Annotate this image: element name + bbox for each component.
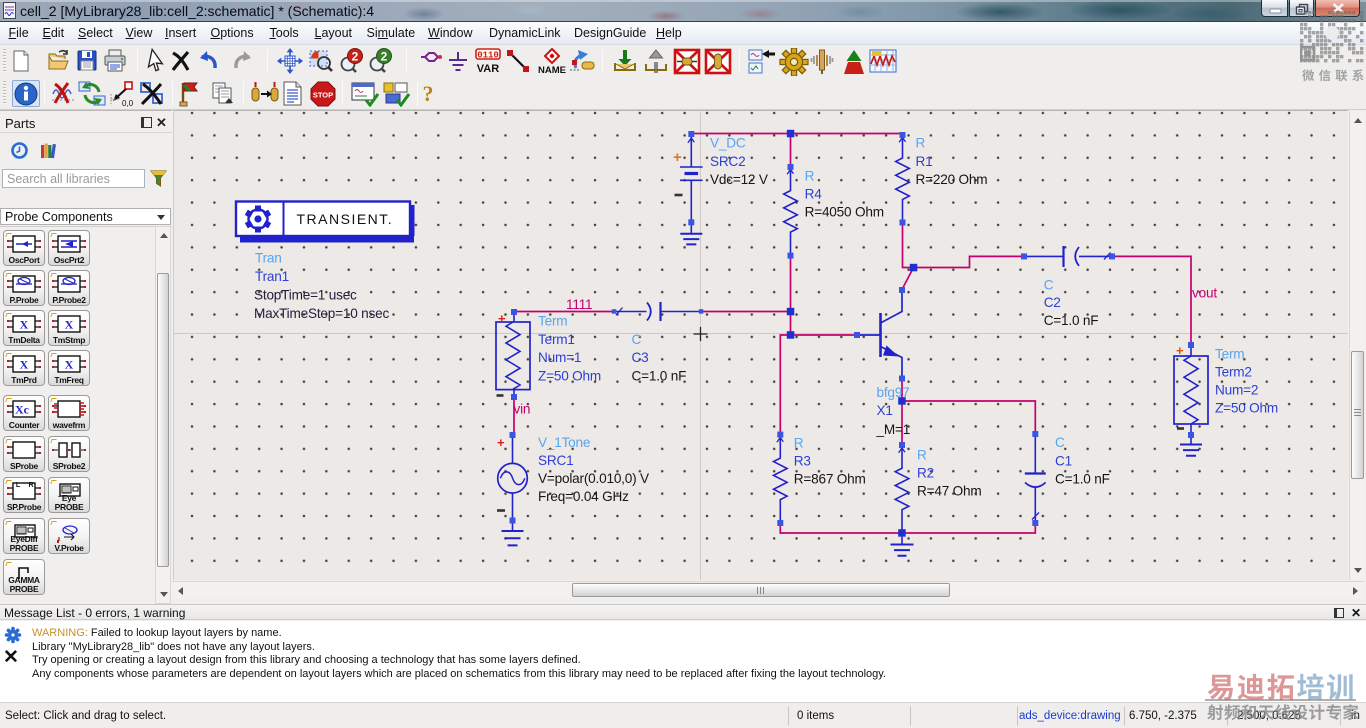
- svg-text:bfg97: bfg97: [877, 385, 910, 400]
- svg-text:X1: X1: [877, 403, 893, 418]
- svg-text:Num=1: Num=1: [538, 350, 581, 365]
- svg-text:R=220 Ohm: R=220 Ohm: [916, 172, 988, 187]
- svg-text:MaxTimeStep=10 nsec: MaxTimeStep=10 nsec: [254, 306, 390, 321]
- svg-text:C=1.0 nF: C=1.0 nF: [632, 368, 687, 383]
- svg-text:+: +: [497, 435, 505, 450]
- svg-text:C1: C1: [1055, 454, 1072, 469]
- svg-text:SRC2: SRC2: [710, 154, 745, 169]
- svg-text:X: X: [20, 318, 29, 332]
- svg-text:Tran: Tran: [255, 251, 282, 266]
- svg-text:VAR: VAR: [477, 63, 499, 75]
- svg-text:R3: R3: [794, 454, 811, 469]
- svg-text:C: C: [632, 332, 642, 347]
- svg-text:C2: C2: [1044, 295, 1061, 310]
- svg-text:X: X: [20, 358, 29, 372]
- svg-text:C3: C3: [632, 350, 649, 365]
- svg-text:C: C: [1055, 435, 1065, 450]
- svg-text:Term: Term: [1215, 347, 1244, 362]
- svg-text:Tran1: Tran1: [255, 269, 289, 284]
- svg-text:+: +: [1176, 343, 1184, 358]
- svg-text:R=867 Ohm: R=867 Ohm: [794, 472, 866, 487]
- svg-text:R: R: [794, 436, 804, 451]
- svg-text:+: +: [673, 149, 682, 166]
- svg-text:?: ?: [423, 81, 434, 106]
- svg-text:0,0: 0,0: [122, 99, 134, 107]
- svg-text:Freq=0.04 GHz: Freq=0.04 GHz: [538, 489, 629, 504]
- svg-text:TRANSIENT.: TRANSIENT.: [297, 211, 394, 227]
- svg-text:R=4050 Ohm: R=4050 Ohm: [805, 205, 884, 220]
- svg-text:StopTime=1 usec: StopTime=1 usec: [254, 288, 357, 303]
- svg-text:2: 2: [352, 50, 359, 64]
- svg-text:V_1Tone: V_1Tone: [538, 435, 590, 450]
- svg-text:SRC1: SRC1: [538, 453, 573, 468]
- svg-text:Num=2: Num=2: [1215, 383, 1258, 398]
- svg-text:X: X: [65, 358, 74, 372]
- svg-text:V_DC: V_DC: [710, 136, 746, 151]
- svg-text:+: +: [498, 311, 506, 326]
- svg-text:C: C: [1044, 277, 1054, 292]
- svg-text:R4: R4: [805, 187, 823, 202]
- svg-text:L: L: [16, 482, 21, 489]
- svg-text:vout: vout: [1192, 286, 1217, 301]
- svg-text:_M=1: _M=1: [876, 422, 911, 437]
- svg-text:1111: 1111: [566, 297, 592, 312]
- svg-text:STOP: STOP: [313, 91, 333, 100]
- svg-text:R=47 Ohm: R=47 Ohm: [917, 484, 982, 499]
- svg-text:R1: R1: [916, 154, 933, 169]
- svg-text:X: X: [65, 318, 74, 332]
- svg-text:R: R: [916, 136, 926, 151]
- svg-text:V=polar(0.010,0) V: V=polar(0.010,0) V: [538, 471, 649, 486]
- svg-text:Term: Term: [538, 314, 567, 329]
- svg-text:C=1.0 nF: C=1.0 nF: [1044, 313, 1099, 328]
- svg-text:R: R: [917, 448, 927, 463]
- svg-text:Vdc=12 V: Vdc=12 V: [710, 172, 768, 187]
- svg-text:2: 2: [381, 50, 388, 64]
- svg-text:R: R: [805, 169, 815, 184]
- svg-text:R2: R2: [917, 466, 934, 481]
- svg-text:R: R: [28, 482, 33, 489]
- svg-text:C=1.0 nF: C=1.0 nF: [1055, 472, 1110, 487]
- svg-text:NAME: NAME: [538, 65, 566, 75]
- svg-text:Z=50 Ohm: Z=50 Ohm: [1215, 401, 1278, 416]
- svg-text:Term1: Term1: [538, 332, 575, 347]
- svg-text:vin: vin: [514, 402, 531, 417]
- svg-text:Z=50 Ohm: Z=50 Ohm: [538, 368, 601, 383]
- svg-text:Term2: Term2: [1215, 365, 1252, 380]
- svg-text:Xc: Xc: [15, 403, 30, 417]
- svg-text:0110: 0110: [477, 51, 499, 61]
